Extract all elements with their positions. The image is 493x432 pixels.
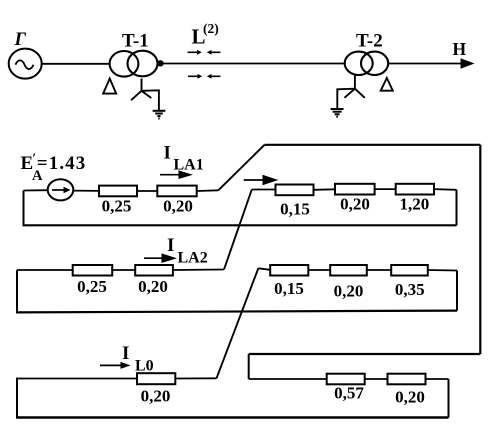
bottom wire row2 — [16, 311, 457, 313]
wire generator to T-1 — [42, 63, 111, 65]
right vertical row0 — [448, 379, 450, 418]
bottom wire row1 — [23, 224, 457, 226]
wire T-2 to load with arrow — [389, 58, 475, 68]
left vertical row1 — [23, 191, 25, 226]
svg-text:0,20: 0,20 — [163, 197, 193, 216]
fault arrows — [188, 50, 221, 79]
left vertical row2 — [16, 270, 18, 312]
wire left row0 — [17, 378, 137, 380]
wire row2 to right vertical — [428, 269, 457, 272]
current arrow I_L0 — [100, 343, 154, 375]
svg-text:H: H — [453, 39, 467, 59]
svg-text:I: I — [164, 143, 171, 164]
bottom wire row0 — [16, 416, 449, 418]
wire to right vertical — [426, 378, 449, 380]
wire row2 R1 to R2 — [112, 269, 135, 271]
label EA'=1.43 — [21, 152, 87, 185]
svg-text:0,57: 0,57 — [334, 384, 364, 403]
long right vertical wire — [479, 145, 481, 354]
svg-text:(2): (2) — [203, 21, 219, 36]
wire R2 to diagonal — [197, 189, 219, 192]
svg-text:T-2: T-2 — [356, 31, 383, 52]
svg-text:=1.43: =1.43 — [37, 153, 87, 174]
resistor 0,25 row2 — [73, 265, 113, 276]
svg-text:0,15: 0,15 — [274, 279, 304, 298]
delta winding T-1 — [103, 79, 116, 94]
svg-text:′: ′ — [32, 152, 36, 167]
top wire bottom-right loop — [249, 353, 481, 355]
resistor 0,35 row2 — [391, 265, 428, 276]
wire corner to R3 — [252, 189, 276, 191]
wire R4 to R5 — [375, 188, 396, 190]
svg-text:0,20: 0,20 — [395, 388, 425, 407]
node junction dot — [157, 60, 163, 66]
resistor 0,15 row2 — [270, 265, 308, 276]
svg-text:0,20: 0,20 — [138, 277, 168, 296]
svg-text:0,20: 0,20 — [141, 387, 171, 406]
wire source to R1 — [73, 190, 99, 192]
left vertical row0 — [16, 378, 18, 418]
delta winding T-2 — [381, 78, 393, 91]
right vertical row1 — [456, 190, 458, 226]
current arrow I_LA1 — [160, 143, 204, 180]
wire R1 to R2 — [137, 190, 157, 192]
wire left to source — [24, 189, 48, 191]
wire row2 — [367, 269, 391, 271]
resistor 0,57 — [327, 374, 365, 385]
resistor 1,20 row1 — [396, 184, 434, 195]
svg-text:0,20: 0,20 — [334, 282, 364, 301]
wire left row2 — [17, 269, 73, 271]
wire between — [365, 378, 388, 380]
svg-text:I: I — [167, 235, 174, 256]
ground T-1 — [153, 111, 166, 119]
top wire row1 — [265, 144, 481, 146]
wire row0 to diagonal — [175, 377, 216, 379]
resistor 0,20 row2 — [135, 265, 173, 276]
wye winding T-2 — [337, 76, 365, 109]
fault injection arrow row1 — [244, 175, 278, 185]
svg-text:Γ: Γ — [14, 29, 27, 50]
wire row2 — [308, 269, 330, 271]
svg-text:0,25: 0,25 — [102, 197, 132, 216]
right vertical row2 — [456, 271, 458, 311]
current arrow I_LA2 — [144, 235, 208, 267]
resistor 0,25 row1 — [99, 186, 137, 197]
resistor 0,20 row1 right — [335, 184, 375, 195]
wire T-1 to T-2 — [163, 63, 345, 65]
ground T-2 — [331, 109, 344, 117]
resistor 0,20 row1 — [157, 186, 196, 197]
wire row2 to diagonal — [173, 269, 224, 272]
generator G — [9, 49, 42, 79]
svg-text:LA2: LA2 — [178, 250, 208, 267]
resistor 0,15 row1 — [276, 185, 314, 196]
resistor 0,20 bottom right — [388, 374, 426, 385]
svg-text:LA1: LA1 — [174, 157, 204, 174]
svg-text:0,25: 0,25 — [77, 277, 107, 296]
resistor 0,20 row0 — [137, 373, 175, 384]
diagonal wire row0 to row2 — [217, 268, 259, 378]
wire R3 to R4 — [314, 188, 336, 191]
resistor 0,20 row2 right — [330, 265, 367, 276]
wire to R 0,57 — [249, 378, 327, 380]
svg-text:L0: L0 — [135, 358, 154, 375]
wire R5 to right — [434, 188, 457, 191]
svg-text:T-1: T-1 — [122, 31, 149, 52]
svg-text:I: I — [122, 343, 129, 364]
diagonal wire row1 up — [218, 145, 264, 191]
left vertical bottom-right loop — [248, 354, 250, 379]
transformer T-1 — [110, 51, 158, 77]
wire row2 right start — [258, 268, 270, 270]
svg-text:0,20: 0,20 — [340, 195, 370, 214]
diagonal wire row2 to row1 — [224, 190, 252, 270]
svg-text:0,35: 0,35 — [395, 280, 425, 299]
svg-text:0,15: 0,15 — [280, 200, 310, 219]
wye winding T-1 — [131, 79, 159, 111]
transformer T-2 — [345, 52, 389, 75]
label L(2) — [192, 21, 219, 49]
svg-text:1,20: 1,20 — [400, 195, 430, 214]
source EA circle with arrow — [48, 179, 74, 200]
